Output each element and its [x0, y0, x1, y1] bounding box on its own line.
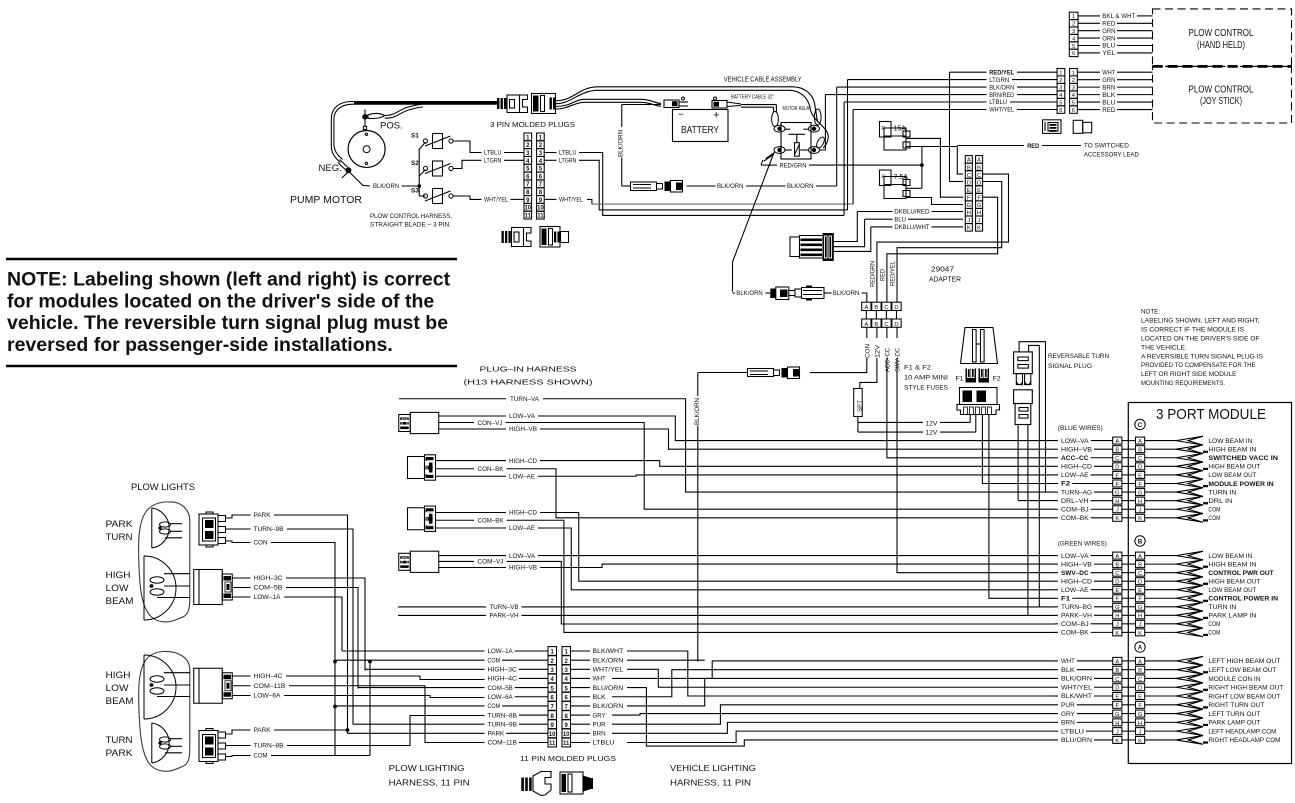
- svg-text:COM–VJ: COM–VJ: [478, 559, 504, 566]
- wire HIGH-VB conn1: [439, 428, 506, 430]
- wire 11pin r1 BLK/WHT to module E: [627, 651, 1055, 696]
- svg-text:CONTROL PWR OUT: CONTROL PWR OUT: [1208, 570, 1273, 577]
- svg-text:HIGH–VB: HIGH–VB: [509, 565, 537, 572]
- wire LOW-6A: [233, 695, 251, 697]
- svg-text:COM–11B: COM–11B: [254, 683, 286, 690]
- svg-text:RED: RED: [879, 269, 886, 281]
- wire HIGH-VB conn4: [439, 567, 506, 569]
- svg-text:BATTERY: BATTERY: [681, 125, 719, 136]
- svg-text:PLOW CONTROL: PLOW CONTROL: [1189, 28, 1254, 39]
- svg-text:RED/GRN: RED/GRN: [869, 261, 876, 287]
- svg-text:HARNESS, 11 PIN: HARNESS, 11 PIN: [670, 778, 751, 788]
- svg-text:(JOY STICK): (JOY STICK): [1200, 96, 1242, 107]
- module row H: PARK–VH / PARK LAMP IN: [1055, 614, 1058, 616]
- joystick wire BRN: [1077, 86, 1100, 88]
- svg-text:LOW BEAM OUT: LOW BEAM OUT: [1208, 587, 1256, 594]
- wire LTBLU to joystick pin 5: [844, 101, 986, 103]
- svg-text:PARK LAMP OUT: PARK LAMP OUT: [1208, 720, 1260, 727]
- svg-text:ACCESSORY LEAD: ACCESSORY LEAD: [1084, 152, 1139, 159]
- svg-text:LEFT LOW BEAM OUT: LEFT LOW BEAM OUT: [1208, 667, 1276, 674]
- svg-text:D: D: [894, 322, 898, 328]
- svg-text:LOW BEAM IN: LOW BEAM IN: [1208, 553, 1252, 560]
- svg-text:LOW–VA: LOW–VA: [509, 413, 536, 420]
- svg-text:LTBLU: LTBLU: [593, 740, 615, 747]
- svg-text:HIGH BEAM OUT: HIGH BEAM OUT: [1208, 578, 1260, 585]
- svg-text:C: C: [1138, 422, 1143, 429]
- adapter wire to BLU: [834, 219, 865, 247]
- svg-text:E: E: [1138, 588, 1142, 594]
- svg-text:C: C: [884, 322, 888, 328]
- svg-text:F: F: [1138, 482, 1142, 488]
- 11-pin row 7 COM / BLK/ORN: [335, 705, 485, 707]
- note block bottom rule: [6, 365, 457, 368]
- svg-text:LEFT TURN OUT: LEFT TURN OUT: [1208, 711, 1260, 718]
- relay ring terminals: [774, 125, 785, 132]
- svg-text:LTGRN: LTGRN: [989, 77, 1009, 84]
- pump motor POS pigtail wire: [368, 113, 385, 118]
- svg-text:RED: RED: [1027, 143, 1039, 150]
- module row B: BLK / LEFT LOW BEAM OUT: [1055, 669, 1058, 671]
- wire HIGH-3C: [233, 577, 251, 579]
- svg-text:HIGH–CD: HIGH–CD: [1061, 464, 1092, 471]
- label WHT/YEL right + wire to gray bus: [544, 198, 556, 200]
- svg-text:LTBLU: LTBLU: [484, 150, 502, 157]
- svg-text:S2: S2: [411, 160, 419, 167]
- svg-text:J: J: [1139, 508, 1142, 514]
- wire 11pin r7 BLK/ORN to module C: [627, 678, 1055, 705]
- wire TURN-8B lower: [226, 745, 251, 747]
- svg-text:LOW–AE: LOW–AE: [1061, 587, 1089, 594]
- svg-text:F1: F1: [1061, 595, 1071, 602]
- wire NEG to BLK/ORN: [350, 173, 363, 186]
- svg-text:RED: RED: [1102, 21, 1115, 28]
- svg-text:G: G: [1115, 605, 1120, 611]
- svg-text:COM–BK: COM–BK: [478, 518, 505, 525]
- connector COM-VJ (headlamp 4): [399, 553, 411, 570]
- svg-text:F: F: [1116, 482, 1120, 488]
- svg-text:C: C: [1138, 571, 1142, 577]
- svg-text:A REVERSIBLE TURN SIGNAL PLUG: A REVERSIBLE TURN SIGNAL PLUG IS: [1141, 353, 1263, 360]
- battery positive clamp: [712, 101, 727, 109]
- connector COM-BK (headlamp 3): [408, 508, 425, 530]
- svg-text:HIGH: HIGH: [106, 670, 131, 681]
- svg-text:J: J: [1116, 730, 1119, 736]
- svg-text:NEG.: NEG.: [319, 163, 342, 174]
- svg-text:SWV–DC: SWV–DC: [895, 348, 902, 372]
- battery box: [673, 110, 729, 142]
- wire COM-5B: [233, 587, 251, 589]
- svg-text:RED/YEL: RED/YEL: [989, 69, 1014, 76]
- svg-text:SPT: SPT: [858, 400, 864, 412]
- module row E: LOW–AE / LOW BEAM OUT: [1055, 589, 1058, 591]
- svg-text:TURN–8B: TURN–8B: [254, 743, 284, 750]
- wire LOW-AE conn3: [436, 527, 506, 529]
- joystick wire BLU: [1077, 101, 1100, 103]
- label WHT/YEL left: [480, 198, 483, 200]
- module group letter B: [1135, 536, 1145, 546]
- joystick wire WHT: [1077, 71, 1100, 73]
- svg-text:H: H: [1138, 721, 1142, 727]
- joystick wire RED: [1077, 109, 1100, 111]
- wire LOW-VA conn4: [439, 555, 506, 557]
- NEG terminal dot: [345, 167, 351, 173]
- module row F: PUR / RIGHT TURN OUT: [1055, 704, 1058, 706]
- svg-text:PUMP MOTOR: PUMP MOTOR: [290, 195, 362, 206]
- connector park/turn upper lamp: [199, 514, 218, 545]
- svg-text:12V: 12V: [925, 429, 938, 436]
- svg-text:PROVIDED TO COMPENSATE FOR THE: PROVIDED TO COMPENSATE FOR THE: [1141, 362, 1256, 369]
- svg-text:TURN–9B: TURN–9B: [488, 721, 517, 728]
- wire CON lower: [226, 756, 251, 757]
- svg-text:MODULE CON IN: MODULE CON IN: [1208, 676, 1260, 683]
- joystick wire GRN: [1077, 79, 1100, 81]
- plow control harness pin column right: [537, 133, 545, 141]
- svg-text:B: B: [1138, 448, 1142, 454]
- svg-text:BLK/ORN: BLK/ORN: [593, 657, 624, 664]
- svg-text:A: A: [1138, 659, 1142, 665]
- upper lamp high/low reflector: [144, 556, 176, 620]
- svg-text:J: J: [1116, 508, 1119, 514]
- svg-text:CON–BK: CON–BK: [478, 466, 505, 473]
- svg-text:BLU: BLU: [894, 216, 906, 223]
- wire LTGRN to joystick pin 2: [848, 79, 987, 81]
- svg-text:COM: COM: [1208, 621, 1220, 628]
- wire 11pin r8 GRY to module G: [612, 714, 1055, 715]
- svg-text:HARNESS, 11 PIN: HARNESS, 11 PIN: [389, 778, 470, 788]
- 3 pin molded plug icon right (inline): [532, 94, 556, 114]
- svg-text:BRN: BRN: [1102, 84, 1115, 91]
- svg-text:3 PIN MOLDED PLUGS: 3 PIN MOLDED PLUGS: [490, 120, 575, 129]
- svg-text:B: B: [1138, 563, 1142, 569]
- module row J: COM–BJ / COM: [1055, 623, 1058, 625]
- svg-text:MOUNTING REQUIREMENTS.: MOUNTING REQUIREMENTS.: [1141, 380, 1225, 387]
- wire battery negative BLK/ORN drop: [622, 104, 661, 106]
- svg-text:TURN IN: TURN IN: [1208, 489, 1236, 496]
- svg-text:G: G: [1138, 605, 1143, 611]
- svg-text:A: A: [1138, 645, 1143, 652]
- vertical wires joystick signals: [949, 72, 951, 181]
- pump motor POS stud: [362, 114, 368, 120]
- svg-text:COM–11B: COM–11B: [488, 740, 517, 747]
- svg-text:H: H: [1138, 499, 1142, 505]
- plow control joy stick dashed box: [1153, 66, 1292, 123]
- module row A: WHT / LEFT HIGH BEAM OUT: [1055, 660, 1058, 662]
- svg-text:for modules located on the dri: for modules located on the driver's side…: [7, 290, 434, 312]
- svg-text:BLK/ORN: BLK/ORN: [833, 290, 860, 297]
- module row D: HIGH–CD / HIGH BEAM OUT: [1055, 465, 1058, 467]
- module row E: BLK/WHT / RIGHT LOW BEAM OUT: [1055, 695, 1058, 697]
- svg-text:COM–5B: COM–5B: [254, 585, 283, 592]
- 11-pin row 3 HIGH–3C / WHT/YEL: [365, 668, 485, 670]
- module row F: F2 / MODULE POWER IN: [1055, 483, 1058, 485]
- svg-text:F1 & F2: F1 & F2: [904, 365, 931, 372]
- module row B: HIGH–VB / HIGH BEAM IN: [1055, 563, 1058, 565]
- svg-text:S3: S3: [411, 188, 419, 195]
- svg-text:C: C: [884, 305, 888, 311]
- svg-text:PARK–VH: PARK–VH: [490, 613, 519, 620]
- svg-text:BATTERY CABLE 32": BATTERY CABLE 32": [731, 95, 774, 101]
- turn plug lower wires: [1017, 425, 1019, 501]
- upper lamp high/low bulb: [150, 577, 164, 583]
- svg-text:J: J: [1139, 622, 1142, 628]
- svg-text:POS.: POS.: [380, 120, 403, 131]
- svg-text:TURN–9B: TURN–9B: [254, 526, 284, 533]
- svg-text:HIGH BEAM IN: HIGH BEAM IN: [1208, 561, 1256, 568]
- svg-text:D: D: [1115, 686, 1119, 692]
- svg-text:COM: COM: [254, 753, 268, 760]
- svg-text:K: K: [1115, 738, 1119, 744]
- connector CON-VJ (headlamp 1): [399, 415, 411, 432]
- svg-text:C: C: [1138, 677, 1142, 683]
- svg-text:A: A: [1115, 554, 1119, 560]
- svg-text:COM–BJ: COM–BJ: [1061, 506, 1089, 513]
- NEG crimp terminal: [340, 160, 348, 168]
- svg-text:LOW BEAM OUT: LOW BEAM OUT: [1208, 472, 1256, 479]
- svg-text:HIGH–VB: HIGH–VB: [509, 426, 537, 433]
- svg-text:SWV–DC: SWV–DC: [1061, 570, 1089, 577]
- 12V wire 2: [858, 431, 923, 433]
- wire 12V down to SPT fuse: [876, 327, 878, 338]
- svg-text:PUR: PUR: [593, 721, 607, 728]
- svg-text:BLU: BLU: [1102, 43, 1115, 50]
- svg-text:LTGRN: LTGRN: [559, 158, 577, 165]
- wire 11pin r10 BRN to module H: [612, 722, 1055, 733]
- svg-text:K: K: [1138, 516, 1142, 522]
- svg-text:RIGHT HIGH BEAM OUT: RIGHT HIGH BEAM OUT: [1208, 685, 1283, 692]
- svg-text:B: B: [1115, 448, 1119, 454]
- svg-text:HIGH–CD: HIGH–CD: [1061, 578, 1092, 585]
- label LTBLU right + wire down to bus: [544, 152, 556, 154]
- svg-text:A: A: [864, 305, 868, 311]
- svg-text:STYLE FUSES: STYLE FUSES: [904, 385, 949, 392]
- plow control hand held dashed box: [1153, 9, 1292, 67]
- wire F1 down to module green F: [989, 415, 1055, 599]
- wire WHT/YEL to joystick pin 6: [853, 109, 986, 111]
- svg-text:CON: CON: [864, 344, 871, 358]
- wire F2 down to module blue F: [982, 415, 1055, 484]
- module row H: BRN / PARK LAMP OUT: [1055, 721, 1058, 723]
- svg-text:COM: COM: [488, 657, 501, 664]
- svg-text:LOW–VA: LOW–VA: [1061, 438, 1089, 445]
- svg-text:VEHICLE CABLE ASSEMBLY: VEHICLE CABLE ASSEMBLY: [724, 77, 802, 84]
- svg-text:PLUG–IN HARNESS: PLUG–IN HARNESS: [480, 365, 577, 374]
- motor relay box: [781, 123, 811, 160]
- svg-text:BLK/ORN: BLK/ORN: [373, 183, 399, 190]
- cable to battery negative clamp: [556, 99, 661, 106]
- svg-text:LOW–VA: LOW–VA: [1061, 553, 1089, 560]
- svg-text:LTBLU: LTBLU: [989, 99, 1007, 106]
- connector high/low lower lamp: [194, 668, 223, 703]
- wire COM-11B: [233, 685, 251, 687]
- wire pin C to adapter RED/GRN: [877, 174, 1009, 302]
- svg-text:TURN–VB: TURN–VB: [490, 604, 519, 611]
- svg-text:G: G: [1115, 712, 1120, 718]
- svg-text:LOW–1A: LOW–1A: [254, 594, 282, 601]
- module row F: F1 / CONTROL POWER IN: [1055, 597, 1058, 599]
- svg-text:D: D: [1138, 580, 1142, 586]
- svg-text:K: K: [1115, 516, 1119, 522]
- wire ACC-CC down to module C: [886, 327, 888, 338]
- wire 11pin r2 BLK/ORN bus: [627, 659, 705, 661]
- svg-text:DRL IN: DRL IN: [1208, 498, 1232, 505]
- svg-text:E: E: [1115, 588, 1119, 594]
- svg-text:10 AMP MINI: 10 AMP MINI: [904, 375, 948, 382]
- junction dot RED/GRN: [920, 163, 924, 167]
- svg-text:7.5A: 7.5A: [894, 174, 909, 181]
- wire RED/YEL to joystick pin 1: [950, 71, 987, 73]
- svg-text:COM–5B: COM–5B: [488, 685, 513, 692]
- inline connector pair (CON): [748, 369, 774, 377]
- wire 7.5A lower to pin G: [906, 198, 963, 205]
- wire HIGH-CD conn3: [436, 512, 506, 514]
- wire CON upper: [226, 541, 251, 543]
- fuse F1: [966, 369, 977, 383]
- label LTGRN left: [480, 159, 483, 161]
- module group letter C: [1135, 419, 1145, 429]
- svg-text:BLK/ORN: BLK/ORN: [593, 703, 624, 710]
- svg-text:LOW–VA: LOW–VA: [509, 553, 536, 560]
- svg-text:10: 10: [549, 732, 556, 738]
- svg-text:LOW–AE: LOW–AE: [509, 474, 535, 481]
- wire 11pin r9 PUR to module F: [612, 705, 1055, 724]
- svg-text:PARK: PARK: [488, 731, 506, 738]
- svg-text:J: J: [1116, 622, 1119, 628]
- svg-text:CONTROL POWER IN: CONTROL POWER IN: [1208, 596, 1278, 603]
- module row G: GRY / LEFT TURN OUT: [1055, 713, 1058, 715]
- svg-text:PARK: PARK: [106, 519, 134, 530]
- svg-text:E: E: [1138, 473, 1142, 479]
- wire main plow-side cable (thick): [354, 102, 497, 104]
- svg-text:PLOW LIGHTS: PLOW LIGHTS: [131, 482, 195, 493]
- svg-text:PLOW CONTROL HARNESS,: PLOW CONTROL HARNESS,: [370, 213, 452, 220]
- svg-text:RED/GRN: RED/GRN: [780, 162, 807, 169]
- svg-text:HIGH BEAM IN: HIGH BEAM IN: [1208, 446, 1256, 453]
- svg-text:E: E: [1115, 694, 1119, 700]
- svg-text:BLK: BLK: [1061, 667, 1076, 674]
- svg-text:LEFT OR RIGHT SIDE MODULE: LEFT OR RIGHT SIDE MODULE: [1141, 371, 1237, 378]
- svg-text:A: A: [1115, 659, 1119, 665]
- module row B: HIGH–VB / HIGH BEAM IN: [1055, 448, 1058, 450]
- svg-text:YEL: YEL: [1102, 50, 1115, 57]
- svg-text:WHT/YEL: WHT/YEL: [593, 667, 624, 674]
- svg-text:GRN: GRN: [1102, 28, 1115, 35]
- handheld wire ORN: [1078, 37, 1100, 39]
- svg-text:COM: COM: [1208, 515, 1220, 522]
- svg-text:B: B: [1115, 563, 1119, 569]
- svg-text:BLU/ORN: BLU/ORN: [593, 685, 624, 692]
- label CON-BK: [436, 468, 474, 470]
- svg-text:NOTE: Labeling shown (left and: NOTE: Labeling shown (left and right) is…: [7, 269, 451, 291]
- module row D: HIGH–CD / HIGH BEAM OUT: [1055, 580, 1058, 582]
- wire 11pin r4 WHT to module A: [612, 661, 1055, 679]
- fuse holder cover: [961, 328, 998, 364]
- svg-text:WHT/YEL: WHT/YEL: [1061, 684, 1092, 691]
- relay right cable lug: [814, 109, 821, 125]
- thick dashed divider: [1153, 65, 1292, 68]
- svg-text:6: 6: [1059, 108, 1062, 114]
- svg-text:LEFT HIGH BEAM OUT: LEFT HIGH BEAM OUT: [1208, 658, 1280, 665]
- svg-text:TURN–BG: TURN–BG: [1061, 604, 1092, 611]
- BLK/ORN main vertical wire: [697, 373, 699, 397]
- svg-text:15A: 15A: [894, 126, 907, 133]
- svg-text:BLK/ORN: BLK/ORN: [736, 290, 763, 297]
- svg-text:(HAND HELD): (HAND HELD): [1197, 40, 1245, 51]
- vehicle cable assembly double cable: [556, 87, 818, 122]
- svg-text:BLK/ORN: BLK/ORN: [1061, 676, 1092, 683]
- svg-text:MODULE POWER IN: MODULE POWER IN: [1208, 481, 1274, 488]
- inline connector pair (adapter BLK/ORN): [770, 289, 776, 299]
- wire LOW-1A: [233, 596, 251, 598]
- svg-text:CON: CON: [254, 540, 268, 547]
- svg-text:K: K: [1138, 631, 1142, 637]
- svg-text:BLK/ORN: BLK/ORN: [694, 398, 701, 425]
- wire 15A upper to pin F: [906, 138, 963, 197]
- svg-text:PARK LAMP IN: PARK LAMP IN: [1208, 613, 1256, 620]
- svg-text:LOW: LOW: [106, 583, 129, 594]
- 29047 adapter molded connector: [790, 237, 800, 257]
- svg-text:vehicle. The reversible turn s: vehicle. The reversible turn signal plug…: [7, 312, 448, 334]
- svg-text:K: K: [977, 226, 981, 232]
- svg-text:(BLUE WIRES): (BLUE WIRES): [1058, 425, 1103, 432]
- adapter wire to DKBLU/WHT: [834, 227, 871, 252]
- module row K: COM–BK / COM: [1055, 631, 1058, 633]
- svg-text:MOTOR RELAY: MOTOR RELAY: [783, 106, 812, 112]
- svg-text:ACC–CC: ACC–CC: [1061, 455, 1089, 462]
- fuse F2: [979, 369, 990, 383]
- module row J: COM–BJ / COM: [1055, 508, 1058, 510]
- svg-text:H: H: [1115, 499, 1119, 505]
- label BLU + wire to pin J: [865, 218, 893, 220]
- wire 11pin r5 BLU/ORN to module K: [627, 688, 1055, 747]
- svg-text:ORN: ORN: [1102, 35, 1115, 42]
- module row C: BLK/ORN / MODULE CON IN: [1055, 677, 1058, 679]
- 11 pin connector columns: [548, 647, 557, 656]
- wire PARK upper: [226, 515, 251, 518]
- svg-text:ACC–CC: ACC–CC: [884, 348, 891, 372]
- module row G: TURN–BG / TURN IN: [1055, 606, 1058, 608]
- svg-text:(H13 HARNESS SHOWN): (H13 HARNESS SHOWN): [464, 378, 593, 387]
- lower lamp turn/park bulb: [160, 737, 171, 742]
- module row G: TURN–AG / TURN IN: [1055, 491, 1058, 493]
- svg-text:J: J: [1139, 730, 1142, 736]
- svg-text:PARK: PARK: [254, 512, 272, 519]
- svg-text:TURN: TURN: [106, 532, 133, 543]
- wire SPT to 12V lines: [857, 417, 859, 433]
- svg-text:(GREEN WIRES): (GREEN WIRES): [1058, 541, 1107, 548]
- svg-text:RED: RED: [1102, 107, 1115, 114]
- svg-text:LOW–1A: LOW–1A: [488, 648, 514, 655]
- label COM-BK: [436, 519, 474, 521]
- 11-pin row 1 LOW–1A / BLK/WHT: [342, 650, 485, 652]
- svg-text:PARK–VH: PARK–VH: [1061, 613, 1092, 620]
- svg-text:+: +: [713, 110, 719, 122]
- svg-text:SWITCHED VACC IN: SWITCHED VACC IN: [1208, 455, 1278, 462]
- svg-text:HIGH–3C: HIGH–3C: [488, 667, 518, 674]
- svg-text:6: 6: [1072, 108, 1075, 114]
- svg-text:GRN: GRN: [1102, 77, 1115, 84]
- junction dots lamp verticals: [333, 660, 337, 664]
- svg-text:ADAPTER: ADAPTER: [929, 275, 961, 284]
- svg-text:RIGHT LOW BEAM OUT: RIGHT LOW BEAM OUT: [1208, 693, 1280, 700]
- handheld wire BLU: [1078, 45, 1100, 47]
- svg-text:PARK: PARK: [254, 727, 272, 734]
- svg-text:LOCATED ON THE DRIVER'S SIDE O: LOCATED ON THE DRIVER'S SIDE OF: [1141, 335, 1260, 342]
- wire 11pin r11 LTBLU to module J: [627, 731, 1055, 742]
- svg-text:11 PIN MOLDED PLUGS: 11 PIN MOLDED PLUGS: [520, 754, 616, 763]
- 3 pin molded plug icon left (inline): [497, 98, 499, 109]
- diagonal wire relay to BLK/ORN inline connectors: [733, 153, 775, 263]
- svg-text:COM: COM: [1208, 507, 1220, 514]
